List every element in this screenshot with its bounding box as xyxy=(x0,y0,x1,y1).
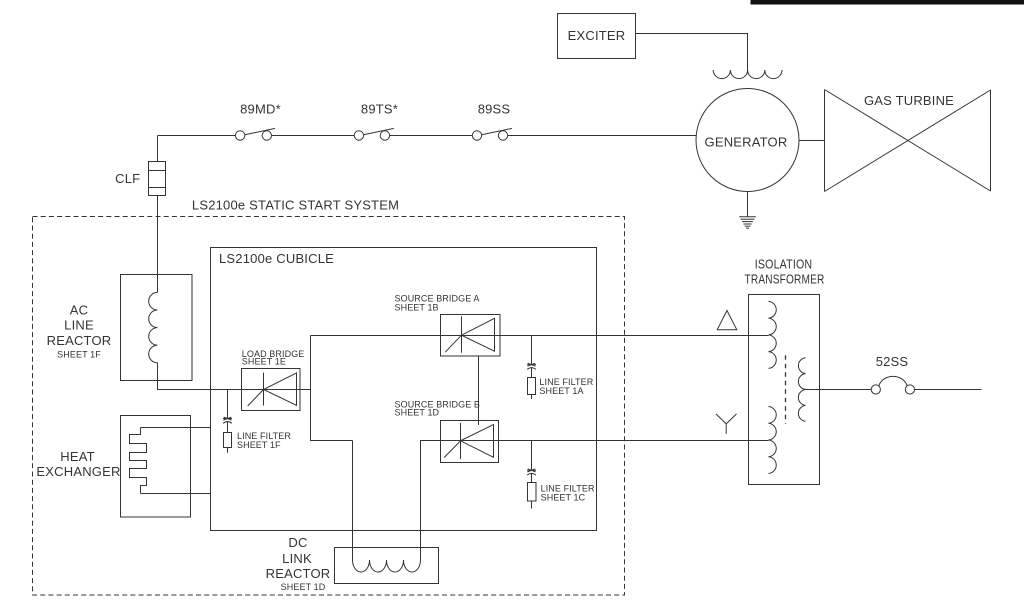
wire source bridge A line xyxy=(311,335,769,337)
transformer primary winding top xyxy=(769,301,777,368)
heat exchanger box xyxy=(121,416,191,518)
svg-text:EXCHANGER: EXCHANGER xyxy=(36,464,120,479)
svg-text:LS2100e STATIC START SYSTEM: LS2100e STATIC START SYSTEM xyxy=(192,198,399,213)
line filter 1A xyxy=(527,336,536,400)
main bus wire segment 4 xyxy=(508,135,697,137)
svg-text:SHEET 1E: SHEET 1E xyxy=(242,357,286,367)
gas turbine xyxy=(825,90,991,192)
svg-text:HEAT: HEAT xyxy=(60,449,95,464)
line filter 1C xyxy=(527,441,536,509)
wire generator to turbine xyxy=(799,140,825,142)
delta symbol xyxy=(717,311,737,330)
wire fuse to AC line reactor xyxy=(157,196,159,293)
wire bus to fuse xyxy=(157,136,159,162)
disconnect switch 89MD xyxy=(235,128,275,140)
exciter box xyxy=(558,14,636,59)
load bridge box xyxy=(242,369,301,411)
svg-text:SHEET 1A: SHEET 1A xyxy=(539,386,583,396)
generator G xyxy=(696,89,799,192)
svg-text:SHEET 1D: SHEET 1D xyxy=(395,408,440,418)
svg-text:89MD*: 89MD* xyxy=(240,102,281,117)
breaker 52SS xyxy=(871,376,914,394)
svg-text:LS2100e CUBICLE: LS2100e CUBICLE xyxy=(219,251,334,266)
svg-text:SHEET 1B: SHEET 1B xyxy=(395,303,439,313)
label TRANSFORMER xyxy=(745,272,825,286)
wire exciter to field winding xyxy=(636,34,748,71)
exciter field winding xyxy=(713,70,782,79)
thyristor load bridge xyxy=(248,373,297,406)
main bus wire segment 3 xyxy=(390,135,473,137)
svg-text:SHEET 1D: SHEET 1D xyxy=(281,582,326,592)
svg-text:EXCITER: EXCITER xyxy=(568,28,626,43)
wire source bridge B line xyxy=(441,440,769,442)
svg-text:GAS TURBINE: GAS TURBINE xyxy=(864,93,954,108)
wire reactor to load bridge xyxy=(158,363,311,390)
wye symbol xyxy=(716,414,737,434)
svg-text:SHEET 1C: SHEET 1C xyxy=(541,492,586,502)
inductor AC line reactor xyxy=(149,292,158,362)
wire breaker to right xyxy=(915,389,982,391)
DC link reactor box xyxy=(335,548,439,584)
wire dc link left vertical xyxy=(352,441,354,561)
transformer core xyxy=(785,355,787,424)
heat exchanger coil xyxy=(130,428,147,494)
AC line reactor box xyxy=(121,275,193,381)
svg-text:GENERATOR: GENERATOR xyxy=(705,135,788,150)
line filter 1F xyxy=(223,390,232,453)
wire dc link right vertical xyxy=(421,441,441,561)
dc link vertical junction wire xyxy=(311,336,353,441)
source bridge A box xyxy=(441,315,501,357)
transformer primary winding bottom xyxy=(769,407,777,474)
isolation transformer box xyxy=(749,295,820,485)
svg-text:TRANSFORMER: TRANSFORMER xyxy=(745,272,825,286)
svg-text:ISOLATION: ISOLATION xyxy=(755,256,813,271)
svg-text:CLF: CLF xyxy=(115,171,140,186)
thyristor source bridge B xyxy=(444,423,493,459)
inductor DC link reactor xyxy=(353,560,421,572)
ground xyxy=(739,192,756,229)
disconnect switch 89TS xyxy=(354,128,394,140)
svg-text:89TS*: 89TS* xyxy=(361,102,398,117)
wire bridge A to bridge B xyxy=(478,356,480,425)
wire secondary to breaker xyxy=(806,389,872,391)
fuse CLF xyxy=(149,162,166,196)
svg-text:52SS: 52SS xyxy=(876,354,909,369)
svg-text:SHEET 1F: SHEET 1F xyxy=(57,350,101,360)
wire heat exchanger top xyxy=(141,427,211,429)
transformer secondary winding xyxy=(798,358,805,422)
black title bar fragment top right xyxy=(751,0,1024,5)
main bus wire segment 2 xyxy=(272,135,355,137)
label ISOLATION xyxy=(755,256,813,271)
cubicle box xyxy=(211,248,597,531)
dashed enclosure LS2100e static start system xyxy=(33,217,625,596)
svg-text:REACTOR: REACTOR xyxy=(266,566,331,581)
thyristor source bridge A xyxy=(445,316,494,352)
disconnect switch 89SS xyxy=(472,128,512,140)
svg-text:SHEET 1F: SHEET 1F xyxy=(237,440,281,450)
svg-text:LINK: LINK xyxy=(282,551,312,566)
svg-text:AC: AC xyxy=(70,303,88,318)
svg-text:REACTOR: REACTOR xyxy=(47,333,112,348)
wire heat exchanger bottom xyxy=(141,493,211,495)
svg-text:89SS: 89SS xyxy=(478,102,511,117)
source bridge B box xyxy=(441,421,499,463)
svg-text:LINE: LINE xyxy=(64,318,94,333)
main bus wire segment 1 xyxy=(158,135,236,137)
svg-text:DC: DC xyxy=(288,535,307,550)
